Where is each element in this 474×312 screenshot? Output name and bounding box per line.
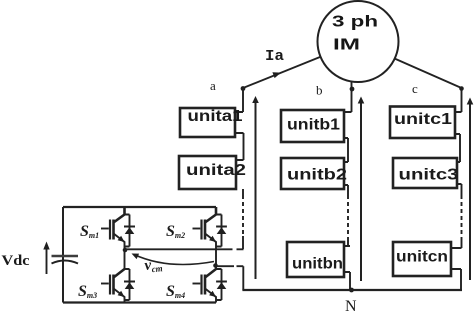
svg-text:Ia: Ia [265,48,284,65]
unit box unitb2 [281,158,347,189]
capacitor C1 straight plate [52,255,79,258]
svg-text:unitbn: unitbn [292,256,343,273]
wire motor lead phase a [243,57,320,88]
svg-text:unitc1: unitc1 [394,111,452,128]
wire bridge output lower to N [216,266,244,290]
unit box unitc1 [390,107,455,139]
transistor Q1 Sm1 [101,207,125,269]
wire motor lead phase c [395,59,462,113]
svg-text:unitcn: unitcn [396,249,448,266]
unit box unitc3 [393,158,459,188]
wire link unita1 to unita2 [235,133,244,160]
motor M1 (3 ph IM) [318,1,399,82]
unit box unita2 [179,156,246,189]
transistor Q3 Sm3 [101,269,125,303]
phase b bus arrow [360,103,362,281]
wire motor lead phase b [344,81,352,112]
transistor Q4 Sm4 [193,269,217,303]
diode D4 [216,269,227,300]
wire neutral N line [242,289,462,291]
node a motor junction [241,86,246,91]
wire link unitb1 to unitb2 [344,138,348,162]
wire unitb2 drop dashed continuation [344,185,348,195]
node b motor junction [350,87,355,92]
dc bus top rail [63,206,216,208]
diode D1 [124,215,135,247]
svg-text:unitb2: unitb2 [287,167,347,184]
svg-text:c: c [412,81,418,96]
transistor Q2 Sm2 [193,207,217,269]
diode D2 [216,215,227,247]
svg-text:N: N [345,298,357,312]
svg-text:unita2: unita2 [186,162,246,179]
wire link unitcn to N [451,269,461,290]
unit box unitb1 [281,110,344,142]
node bridge left midpoint [123,248,128,253]
unit box unita1 [180,108,243,137]
svg-text:unita1: unita1 [188,108,243,125]
svg-text:3 ph: 3 ph [332,14,378,31]
Vdc reference arrow [46,248,48,274]
svg-text:b: b [316,83,323,98]
node c motor junction [459,86,464,91]
svg-text:unitc3: unitc3 [399,167,459,184]
phase c bus arrow [469,104,471,280]
svg-text:IM: IM [333,37,360,54]
unit box unitcn [393,242,451,276]
wire bridge output upper to chain [125,248,244,250]
wire a drop to unita1 [235,88,243,112]
current arrow Ia head [272,72,281,78]
unit box unitbn [287,242,344,277]
wire link unitc1 to unitc3 [455,134,460,162]
wire unitc3 drop dashed continuation [457,184,462,195]
svg-text:Vdc: Vdc [2,253,30,269]
svg-text:a: a [210,78,216,93]
node N b junction [349,288,354,293]
capacitor C1 curved plate [52,261,79,264]
wire unita2 drop dashed continuation [242,189,244,195]
wire link unitbn to N [344,272,350,290]
svg-text:unitb1: unitb1 [287,117,340,134]
dc bus bottom rail [63,301,216,303]
diode D3 [124,269,135,300]
dc bus left rail [62,207,64,303]
phase a bus arrow [255,102,257,279]
vcm arrow [134,255,214,265]
node bridge right midpoint [213,263,218,268]
